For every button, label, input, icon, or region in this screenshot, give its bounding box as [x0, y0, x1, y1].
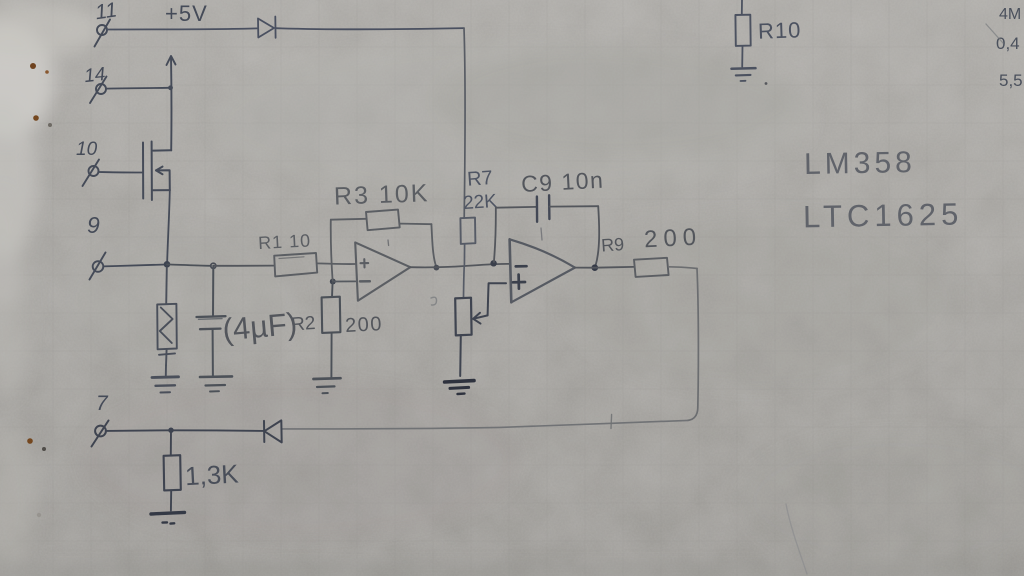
diode D1 — [258, 17, 276, 38]
resistor R8 1.3K — [164, 455, 181, 490]
svg-text:R7: R7 — [466, 167, 493, 191]
svg-text:R9: R9 — [600, 234, 624, 256]
capacitor C9 — [537, 195, 550, 222]
wire U1 output to U2 minus — [410, 264, 509, 267]
wire signal node down to pot — [463, 266, 466, 298]
svg-text:+5V: +5V — [165, 1, 208, 26]
svg-text:200: 200 — [345, 313, 384, 337]
potentiometer K — [455, 298, 471, 336]
wire C9 to output — [550, 205, 599, 207]
wire diode to corner — [276, 28, 464, 29]
resistor R9 — [634, 258, 669, 277]
junction node B — [211, 263, 216, 268]
ground under R8 — [151, 512, 185, 523]
wire R7 bottom to signal node — [463, 244, 465, 266]
svg-text:C9 10n: C9 10n — [520, 167, 604, 197]
wire to C9 — [496, 206, 537, 209]
wire U2 plus input to pot wiper — [488, 283, 506, 315]
resistor R7 — [460, 218, 475, 244]
ground under R2 — [314, 378, 341, 393]
svg-text:(4µF): (4µF) — [221, 306, 298, 347]
svg-text:11: 11 — [94, 0, 119, 24]
wire feedback up from minus node — [331, 220, 333, 281]
wire junction to diode D2 — [171, 429, 264, 432]
terminal 7 — [92, 421, 109, 447]
wire node to U1 minus input — [333, 280, 356, 282]
junction U2 output node — [592, 264, 599, 271]
svg-text:LM358: LM358 — [804, 146, 916, 181]
ground under C1 — [200, 376, 232, 391]
wire U2 output to R9 — [575, 266, 634, 269]
svg-text:R1 10: R1 10 — [258, 230, 312, 253]
pot wiper arrow — [473, 313, 487, 324]
resistor R2 — [322, 297, 341, 333]
tick mark on feedback wire — [610, 415, 613, 429]
ground under R10 — [732, 68, 756, 81]
wire node B to R1 — [213, 265, 273, 267]
diode D2 — [264, 420, 282, 442]
resistor R10 lead top — [741, 0, 743, 15]
svg-text:R10: R10 — [758, 17, 802, 43]
junction node U2 minus — [490, 260, 496, 266]
ground under pot — [445, 381, 474, 394]
wire feedback bottom long run — [282, 420, 688, 429]
transistor Q1 (MOSFET) — [143, 142, 171, 201]
varistor X1 body — [157, 268, 177, 366]
svg-text:R2: R2 — [290, 313, 316, 336]
resistor R1 — [274, 253, 317, 276]
wire node A to node B — [167, 264, 211, 265]
svg-text:0,4: 0,4 — [996, 34, 1020, 53]
wire source down to node 9 — [167, 190, 170, 263]
ground under X1 — [152, 366, 179, 393]
svg-text:5,5: 5,5 — [999, 71, 1023, 90]
wire C9 feedback up — [494, 208, 496, 262]
wire R1 to op-amp U1 + — [317, 262, 355, 265]
svg-text:22K: 22K — [462, 191, 498, 214]
junction node A — [164, 261, 171, 268]
wire R8 to ground — [170, 490, 172, 510]
resistor R3 — [366, 210, 400, 231]
terminal 9 — [90, 253, 106, 280]
svg-text:LTC1625: LTC1625 — [803, 197, 964, 235]
resistor R10 — [735, 15, 750, 46]
wire corner down to R7 — [464, 28, 465, 217]
resistor R8 1.3K lead — [170, 430, 172, 455]
terminal 10 — [83, 160, 100, 187]
svg-text:10: 10 — [76, 139, 98, 160]
svg-text:200: 200 — [643, 223, 702, 253]
wire down to U2 output node — [596, 206, 600, 265]
wire R9 to corner — [669, 267, 697, 269]
svg-text:4M: 4M — [999, 6, 1021, 23]
junction output node U1 — [434, 265, 440, 271]
junction dot node 14/drain — [168, 85, 173, 90]
op-amp U1 — [355, 240, 410, 301]
wire +5V rail — [107, 28, 257, 29]
junction node 7 — [168, 428, 173, 433]
wire to R3 — [331, 218, 366, 221]
stray scratch bottom right — [786, 504, 807, 574]
wire pot down to ground — [459, 335, 462, 376]
svg-text:1,3K: 1,3K — [184, 458, 240, 491]
terminal 11 — [95, 20, 111, 47]
stray mark top right — [986, 24, 1003, 43]
brown specks / holes — [27, 63, 767, 517]
capacitor C1 4uF — [197, 266, 226, 376]
wire R10 to ground — [741, 46, 743, 67]
wire feedback right edge down — [688, 269, 698, 421]
op-amp U2 — [510, 228, 575, 302]
wire terminal 10 to gate — [99, 171, 143, 174]
up arrow on drain rail — [167, 56, 176, 150]
wire terminal 7 to junction — [106, 429, 170, 432]
wire terminal 14 to drain rail — [106, 87, 169, 90]
junction node minus U1 — [330, 279, 336, 285]
stray mark squiggle — [431, 297, 437, 305]
wire R2 to ground — [330, 333, 332, 377]
svg-text:R3 10K: R3 10K — [334, 179, 430, 210]
wire minus node down to R2 — [331, 282, 334, 297]
terminal 14 — [90, 77, 107, 104]
wire R3 to output node — [400, 223, 432, 226]
wire terminal 9 to node — [103, 265, 166, 267]
svg-text:7: 7 — [96, 392, 109, 415]
svg-text:9: 9 — [87, 212, 100, 238]
